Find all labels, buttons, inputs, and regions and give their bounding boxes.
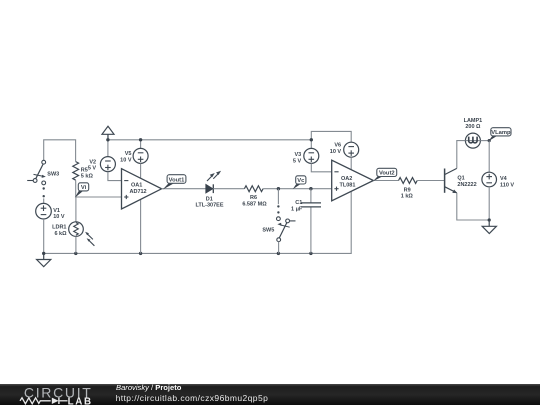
svg-text:SW5: SW5 bbox=[262, 227, 274, 233]
svg-text:2N2222: 2N2222 bbox=[457, 182, 476, 188]
wire V4 to ground rail bbox=[488, 187, 490, 220]
wire R6 to OA2 + input bbox=[263, 188, 332, 190]
wire supply rail bbox=[107, 135, 109, 157]
voltage source V6 bbox=[330, 142, 359, 157]
svg-text:http://circuitlab.com/czx96bmu: http://circuitlab.com/czx96bmu2qp5p bbox=[116, 393, 269, 403]
svg-text:R9: R9 bbox=[404, 187, 411, 193]
svg-text:VLamp: VLamp bbox=[491, 130, 511, 136]
ground (left) bbox=[37, 253, 51, 266]
wire Q1 collector to LAMP1 bbox=[457, 141, 465, 169]
op-amp OA1 AD712 bbox=[122, 169, 162, 209]
node junction dots top rail bbox=[106, 138, 109, 141]
voltage source V2 bbox=[88, 157, 116, 172]
svg-text:Vout1: Vout1 bbox=[169, 177, 185, 183]
switch SW5 bbox=[262, 205, 295, 241]
wire junction to V4 bbox=[488, 141, 490, 173]
node flag Vout2 bbox=[373, 168, 397, 181]
svg-text:5 V: 5 V bbox=[88, 166, 97, 172]
svg-text:R5: R5 bbox=[81, 167, 88, 173]
logo resistor zigzag bbox=[20, 398, 51, 404]
wire top rail left (V1/SW3 to R5) bbox=[44, 140, 76, 162]
svg-text:R6: R6 bbox=[250, 195, 257, 201]
svg-text:10 V: 10 V bbox=[120, 158, 132, 164]
svg-text:10 V: 10 V bbox=[53, 214, 65, 220]
resistor R9 bbox=[399, 178, 418, 200]
svg-text:V5: V5 bbox=[125, 151, 132, 157]
lamp LAMP1 bbox=[464, 118, 483, 148]
wire OA2 output to R9 bbox=[373, 180, 398, 182]
wire Q1 emitter to ground rail bbox=[457, 193, 489, 220]
svg-text:OA1: OA1 bbox=[131, 182, 142, 188]
power flag arrow bbox=[102, 126, 114, 140]
op-amp OA2 TL081 bbox=[332, 160, 374, 201]
wire V5 to OA1 top supply pin bbox=[140, 163, 142, 178]
footer bar bbox=[0, 384, 540, 405]
voltage source V5 bbox=[120, 148, 148, 163]
svg-text:Q1: Q1 bbox=[457, 176, 464, 182]
wire V1 to bottom rail bbox=[43, 219, 45, 253]
resistor R5 bbox=[73, 162, 94, 181]
svg-text:V6: V6 bbox=[334, 143, 341, 149]
wire R9 to Q1 base bbox=[417, 180, 444, 182]
svg-text:Vout2: Vout2 bbox=[379, 171, 395, 177]
svg-text:5 kΩ: 5 kΩ bbox=[81, 174, 94, 180]
node junction dot C1 tap bbox=[309, 187, 312, 190]
node flag Vi bbox=[75, 183, 89, 198]
svg-text:110 V: 110 V bbox=[500, 182, 514, 188]
wire LDR1 to bottom rail bbox=[75, 236, 77, 253]
ground (right) bbox=[482, 220, 496, 234]
svg-text:LDR1: LDR1 bbox=[52, 225, 66, 231]
svg-text:5 V: 5 V bbox=[293, 159, 302, 165]
node junction dots bottom rail bbox=[42, 252, 45, 255]
node flag Vout1 bbox=[163, 175, 186, 190]
svg-text:AD712: AD712 bbox=[130, 189, 147, 195]
svg-text:6.587 MΩ: 6.587 MΩ bbox=[242, 202, 267, 208]
wire junction to C1 bbox=[310, 189, 312, 203]
node flag VLamp bbox=[488, 128, 511, 142]
svg-text:V1: V1 bbox=[53, 208, 60, 214]
svg-text:D1: D1 bbox=[206, 196, 213, 202]
svg-text:V3: V3 bbox=[294, 152, 301, 158]
svg-text:LTL-307EE: LTL-307EE bbox=[195, 203, 223, 209]
svg-text:TL081: TL081 bbox=[340, 182, 356, 188]
svg-text:10 V: 10 V bbox=[330, 149, 342, 155]
wire Vi to LDR1 bbox=[75, 197, 77, 222]
wire OA1 bottom supply pin to rail bbox=[140, 199, 142, 253]
svg-text:V2: V2 bbox=[89, 159, 96, 165]
svg-text:1 μF: 1 μF bbox=[291, 206, 303, 212]
transistor Q1 2N2222 bbox=[445, 168, 477, 193]
wire V6 to OA2 top supply pin bbox=[350, 157, 352, 170]
wire V3 to OA2 - input bbox=[311, 163, 331, 171]
node junction dot V4 bottom bbox=[488, 218, 491, 221]
wire R5 to Vi node bbox=[75, 180, 77, 197]
wire LAMP1 to V4 top junction bbox=[481, 140, 490, 142]
capacitor C1 bbox=[291, 200, 321, 212]
svg-text:C1: C1 bbox=[295, 200, 302, 206]
wire junction to SW5 bbox=[277, 189, 279, 205]
svg-text:OA2: OA2 bbox=[341, 176, 352, 182]
wire C1 to bottom rail bbox=[310, 208, 312, 254]
node junction dot VLamp bbox=[488, 139, 491, 142]
wire SW5 to bottom rail bbox=[278, 242, 280, 254]
logo diode bbox=[52, 398, 59, 404]
LED D1 bbox=[195, 171, 223, 209]
svg-text:SW3: SW3 bbox=[47, 171, 59, 177]
photoresistor LDR1 bbox=[52, 222, 94, 246]
wire bottom rail bbox=[44, 191, 352, 253]
svg-text:LAB: LAB bbox=[68, 396, 93, 405]
wire D1 to R6 bbox=[213, 188, 244, 190]
wire SW3 to V1 bbox=[43, 198, 45, 203]
switch SW3 bbox=[27, 160, 59, 197]
svg-text:Vi: Vi bbox=[81, 185, 87, 191]
voltage source V1 bbox=[36, 203, 65, 220]
svg-text:Vc: Vc bbox=[297, 178, 305, 184]
voltage source V3 bbox=[293, 148, 319, 164]
voltage source V4 bbox=[482, 172, 515, 188]
svg-text:200 Ω: 200 Ω bbox=[465, 124, 481, 130]
svg-text:1 kΩ: 1 kΩ bbox=[401, 194, 414, 200]
node junction dot SW5 tap bbox=[277, 187, 280, 190]
svg-text:Barovisky / Projeto: Barovisky / Projeto bbox=[116, 383, 182, 392]
node flag Vc bbox=[293, 176, 306, 190]
wire OA1 output to D1 bbox=[162, 188, 206, 190]
svg-text:V4: V4 bbox=[500, 176, 508, 182]
wire V2 to op-amp - input bbox=[108, 172, 122, 181]
svg-text:6 kΩ: 6 kΩ bbox=[54, 231, 67, 237]
resistor R6 bbox=[242, 186, 267, 208]
svg-text:LAMP1: LAMP1 bbox=[464, 118, 483, 124]
wire Vi to op-amp + input bbox=[76, 196, 122, 198]
